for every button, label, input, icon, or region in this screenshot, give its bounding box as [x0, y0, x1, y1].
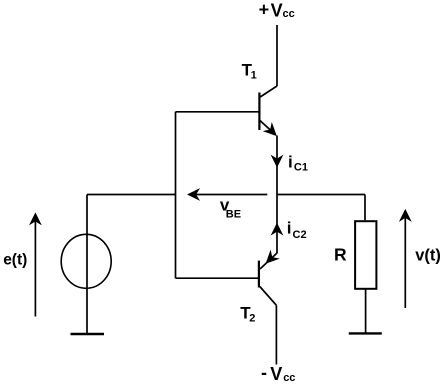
svg-text:cc: cc [283, 372, 295, 384]
wire T2 base [176, 277, 259, 279]
current arrow iC2 [272, 224, 282, 235]
wire R top [364, 195, 366, 221]
svg-text:2: 2 [249, 313, 255, 325]
label iC2 [287, 219, 307, 241]
svg-text:v(t): v(t) [415, 247, 441, 265]
label iC1 [288, 152, 308, 173]
wire T1 base [176, 111, 260, 113]
current arrow iC1 [272, 156, 282, 167]
label vBE [220, 196, 241, 221]
svg-text:+: + [259, 0, 270, 20]
wire R bottom [365, 289, 367, 333]
source e(t) circle [61, 234, 111, 288]
arrow v(t) [400, 210, 410, 308]
svg-text:C2: C2 [293, 229, 307, 241]
power +Vcc label [259, 0, 295, 21]
resistor R [355, 221, 376, 289]
ground right [349, 332, 382, 334]
label T2 [240, 304, 255, 325]
svg-text:i: i [287, 219, 292, 238]
svg-text:e(t): e(t) [3, 252, 27, 269]
svg-text:V: V [271, 1, 283, 21]
svg-text:R: R [334, 244, 347, 264]
svg-text:cc: cc [283, 8, 295, 20]
wire T1 emitter down [276, 136, 278, 195]
svg-text:1: 1 [251, 70, 257, 82]
transistor T2 [259, 251, 278, 305]
svg-text:BE: BE [226, 208, 241, 220]
svg-text:-: - [261, 362, 267, 382]
wire junction to R [277, 194, 365, 196]
transistor T1 [259, 86, 277, 135]
arrow e(t) [30, 214, 40, 317]
svg-text:i: i [288, 152, 293, 171]
wire T2 collector to -Vcc [275, 305, 277, 364]
svg-text:V: V [270, 364, 282, 384]
label T1 [242, 61, 257, 82]
wire junction to T2 emitter [276, 195, 278, 254]
voltage arrow vBE [188, 189, 267, 199]
wire source to rail [87, 194, 176, 196]
wire source branch [86, 195, 88, 335]
wire +Vcc to T1 collector [276, 25, 278, 86]
wire left rail bases [175, 112, 177, 278]
power -Vcc label [261, 362, 295, 384]
svg-text:C1: C1 [294, 162, 308, 174]
ground left [71, 333, 105, 335]
